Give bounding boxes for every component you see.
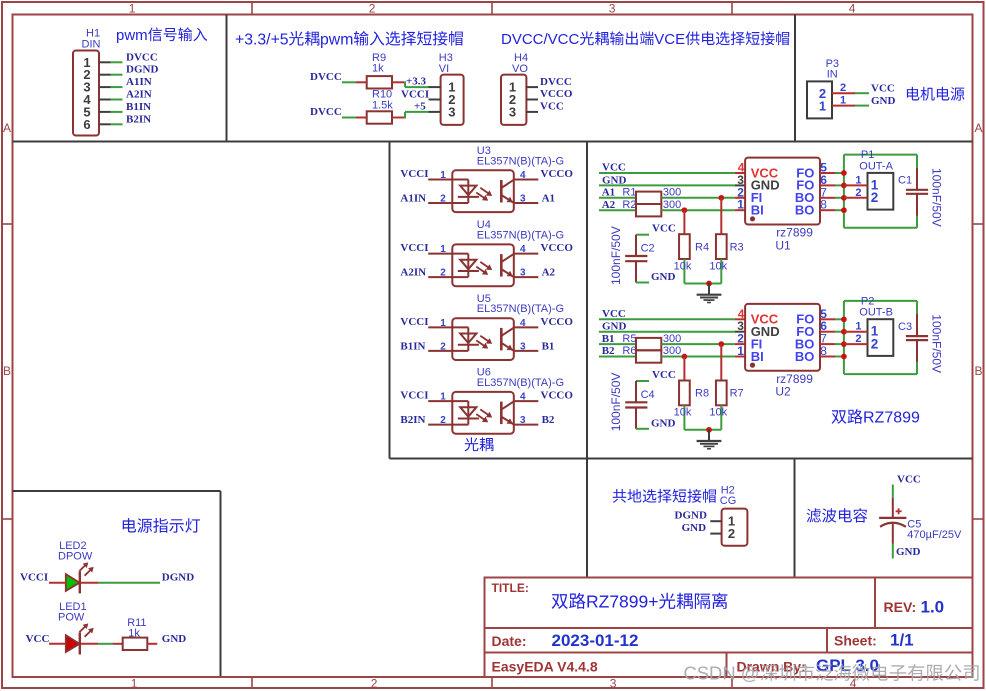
section title common ground select — [613, 489, 627, 503]
svg-text:GND: GND — [651, 417, 676, 429]
svg-text:A1: A1 — [602, 187, 615, 199]
svg-text:R2: R2 — [622, 199, 636, 211]
svg-text:A: A — [3, 121, 11, 135]
svg-text:VCC: VCC — [540, 101, 564, 113]
svg-text:2: 2 — [728, 526, 735, 541]
P3 pin 1 wire to GND — [832, 105, 855, 107]
junction FI pulldown — [718, 341, 724, 347]
svg-text:A1IN: A1IN — [126, 76, 152, 88]
wire R1 to U1 pin2 FI — [661, 197, 734, 199]
LED LED2 cathode bar — [79, 571, 81, 593]
svg-text:VCCI: VCCI — [400, 242, 428, 254]
svg-text:REV:: REV: — [884, 599, 917, 615]
svg-text:EL357N(B)(TA)-G: EL357N(B)(TA)-G — [477, 377, 564, 389]
svg-text:EL357N(B)(TA)-G: EL357N(B)(TA)-G — [477, 155, 564, 167]
U6 light arrows — [480, 409, 489, 415]
U1 pin1 marker — [750, 216, 755, 221]
capacitor C2 100nF/50V — [636, 234, 649, 236]
U3 pin 3 wire — [514, 202, 539, 204]
optocoupler U4 body — [452, 244, 514, 286]
wire GND to U1 pin3 — [599, 184, 735, 186]
capacitor C1 100nF/50V — [916, 168, 918, 190]
svg-text:VCCI: VCCI — [400, 316, 428, 328]
svg-text:B2IN: B2IN — [126, 113, 151, 125]
svg-text:DVCC: DVCC — [540, 76, 572, 88]
svg-text:B1IN: B1IN — [126, 101, 151, 113]
svg-text:GND: GND — [871, 95, 896, 107]
svg-text:BI: BI — [751, 349, 764, 364]
wire DVCC to R10 — [342, 117, 356, 119]
svg-text:GND: GND — [896, 546, 921, 558]
C5 plus sign — [896, 510, 902, 512]
resistor R5 300 — [636, 338, 661, 350]
resistor R3 10k (FI pulldown) — [720, 198, 722, 234]
junction FI pulldown — [718, 195, 724, 201]
svg-text:2023-01-12: 2023-01-12 — [552, 631, 639, 650]
wire bus bottom to C3 — [844, 373, 917, 375]
H4 pin 3 stub — [526, 111, 538, 113]
svg-text:BI: BI — [751, 203, 764, 218]
svg-text:B2: B2 — [542, 414, 555, 426]
LED LED2 arrows — [79, 564, 86, 571]
connector P1 body — [868, 173, 894, 210]
svg-text:100nF/50V: 100nF/50V — [609, 373, 623, 432]
svg-text:POW: POW — [58, 611, 85, 623]
wire B2 to R6 — [599, 356, 636, 358]
svg-text:2: 2 — [871, 336, 879, 351]
svg-text:10k: 10k — [709, 260, 727, 272]
wire bus bottom to C1 — [844, 227, 917, 229]
LED LED1 arrows — [79, 625, 86, 632]
H4 pin 2 stub — [526, 99, 538, 101]
divider common-ground / filter sections — [794, 459, 796, 578]
H1 pin 4 stub — [99, 99, 111, 101]
U4 pin 3 wire — [514, 276, 539, 278]
H1 pin 3 stub — [99, 86, 111, 88]
svg-text:10k: 10k — [674, 407, 692, 419]
H2 pin 2 stub — [710, 533, 721, 535]
svg-text:RZ7899: RZ7899 — [863, 410, 920, 427]
svg-text:R7: R7 — [730, 388, 744, 400]
U5 pin 2 wire — [428, 350, 452, 352]
svg-text:R3: R3 — [730, 241, 744, 253]
svg-text:VCC: VCC — [871, 83, 895, 95]
resistor R6 300 — [636, 350, 661, 362]
svg-text:VCC: VCC — [897, 474, 921, 486]
svg-text:EasyEDA V4.4.8: EasyEDA V4.4.8 — [492, 659, 598, 675]
svg-text:1/1: 1/1 — [890, 631, 914, 650]
U5 pin 1 wire — [428, 326, 452, 328]
svg-text:1: 1 — [855, 321, 861, 333]
svg-text:B: B — [975, 364, 983, 378]
H1 pin 2 stub — [99, 74, 111, 76]
ground symbol — [708, 284, 710, 295]
svg-text:DVCC: DVCC — [310, 71, 342, 83]
LED LED1 triangle — [66, 635, 80, 652]
svg-text:VCC: VCC — [652, 223, 676, 235]
svg-text:100nF/50V: 100nF/50V — [930, 314, 944, 373]
svg-text:VCCI: VCCI — [400, 168, 428, 180]
wire DVCC to R9 — [342, 81, 356, 83]
U6 phototransistor — [500, 402, 503, 425]
svg-text:2: 2 — [871, 190, 879, 205]
P2 pin 1 stub — [844, 331, 868, 333]
wire net DGND — [111, 74, 123, 76]
capacitor C4 100nF/50V — [636, 380, 649, 382]
section label dual RZ7899 — [832, 410, 847, 424]
partition line sec1-sec2 — [226, 15, 228, 142]
section title motor power — [907, 87, 920, 101]
column ticks top — [251, 2, 253, 15]
svg-text:2: 2 — [440, 194, 446, 205]
wire ground rail — [684, 429, 721, 431]
row ticks right — [973, 223, 984, 225]
U5 light arrows — [480, 336, 489, 342]
wire output bus vertical (P1) — [843, 155, 845, 228]
resistor R2 300 — [636, 204, 661, 216]
svg-text:VCE: VCE — [654, 31, 685, 48]
svg-text:IN: IN — [827, 69, 838, 81]
svg-text:1.0: 1.0 — [921, 598, 945, 617]
svg-text:B1: B1 — [602, 333, 615, 345]
wire net A1IN — [111, 86, 123, 88]
svg-text:R1: R1 — [622, 187, 636, 199]
svg-text:3: 3 — [509, 104, 516, 119]
svg-text:DVCC: DVCC — [310, 106, 342, 118]
wire VCC to C5 — [892, 485, 894, 498]
svg-text:RZ7899+: RZ7899+ — [586, 592, 658, 612]
svg-text:470µF/25V: 470µF/25V — [907, 529, 962, 541]
U4 light arrows — [480, 262, 489, 268]
svg-text:1: 1 — [737, 344, 744, 358]
ground symbol — [708, 430, 710, 441]
wire net B1IN — [111, 111, 123, 113]
svg-text:1: 1 — [737, 198, 744, 212]
svg-text:OUT-B: OUT-B — [859, 307, 893, 319]
svg-text:3: 3 — [610, 677, 617, 691]
capacitor C5 470uF/25V electrolytic — [879, 517, 906, 519]
svg-text:pwm: pwm — [116, 27, 148, 44]
svg-text:VCCI: VCCI — [400, 390, 428, 402]
wire B1 to R5 — [599, 343, 636, 345]
wire GND to U2 pin3 — [599, 331, 735, 333]
connector H2 CG — [722, 509, 748, 546]
wire R2 to U1 pin1 BI — [661, 209, 734, 211]
svg-text:100nF/50V: 100nF/50V — [609, 226, 623, 285]
P1 pin 1 stub — [844, 184, 868, 186]
svg-text:Sheet:: Sheet: — [834, 633, 877, 649]
svg-text:4: 4 — [849, 2, 856, 16]
wire R6 to U2 pin1 BI — [661, 356, 734, 358]
svg-text:BO: BO — [795, 349, 815, 364]
svg-text:1: 1 — [129, 2, 136, 16]
wire R11 to GND — [147, 643, 157, 645]
svg-text:VCC: VCC — [602, 308, 626, 320]
svg-text:DGND: DGND — [675, 510, 707, 522]
wire ground rail — [684, 283, 721, 285]
svg-text:VCC: VCC — [26, 633, 50, 645]
U5 phototransistor — [500, 328, 503, 351]
svg-text:VCCO: VCCO — [541, 242, 574, 254]
svg-text:A2: A2 — [602, 199, 616, 211]
resistor R11 1k — [123, 638, 148, 650]
U4 phototransistor — [500, 254, 503, 277]
svg-text:DIN: DIN — [82, 39, 101, 51]
svg-text:1: 1 — [855, 174, 861, 186]
power-indicator box top — [13, 490, 221, 492]
svg-text:VO: VO — [512, 63, 528, 75]
svg-text:300: 300 — [663, 199, 681, 211]
svg-text:A2IN: A2IN — [400, 267, 426, 279]
wire VCCI to LED2 — [49, 582, 66, 584]
capacitor C3 100nF/50V — [916, 314, 918, 336]
wire net A2IN — [111, 99, 123, 101]
svg-text:3: 3 — [520, 415, 526, 426]
svg-text:300: 300 — [663, 187, 681, 199]
wire A2 to R2 — [599, 209, 636, 211]
svg-text:3: 3 — [520, 194, 526, 205]
IC U2 rz7899 body — [745, 304, 820, 371]
P1 pin 2 stub — [844, 197, 868, 199]
svg-text:B1: B1 — [542, 340, 555, 352]
svg-text:1k: 1k — [372, 63, 384, 75]
svg-text:B2: B2 — [602, 345, 615, 357]
svg-text:GND: GND — [162, 633, 187, 645]
svg-text:BO: BO — [795, 203, 815, 218]
optocoupler U3 body — [452, 170, 514, 212]
U5 pin 3 wire — [514, 350, 539, 352]
svg-text:300: 300 — [663, 345, 681, 357]
svg-text:DGND: DGND — [162, 572, 194, 584]
svg-text:A2IN: A2IN — [126, 89, 152, 101]
connector P3 IN — [807, 81, 832, 118]
wire R10 to H3 pin3 — [392, 117, 405, 119]
P3 pin 2 wire to VCC — [832, 92, 855, 94]
junctions output bus — [841, 170, 847, 176]
title block frame — [485, 578, 973, 678]
svg-text:OUT-A: OUT-A — [859, 160, 893, 172]
section title power indicator — [123, 518, 136, 532]
H1 pin 1 stub — [99, 61, 111, 63]
svg-text:VCCI: VCCI — [401, 89, 429, 101]
U6 pin 1 wire — [428, 400, 452, 402]
wire LED2 to DGND — [81, 582, 98, 584]
U4 pin 4 wire — [514, 253, 539, 255]
wire VCC to LED1 — [49, 643, 66, 645]
LED LED2 triangle — [66, 574, 80, 591]
U6 pin 2 wire — [428, 424, 452, 426]
row ticks left — [2, 223, 13, 225]
junctions output bus — [841, 316, 847, 322]
svg-text:R4: R4 — [695, 241, 709, 253]
connector H1 DIN — [73, 51, 99, 136]
svg-text:TITLE:: TITLE: — [492, 581, 529, 595]
connector P2 body — [868, 319, 894, 356]
svg-text:VCCO: VCCO — [540, 88, 573, 100]
section title filter capacitor — [807, 508, 821, 522]
svg-text:CG: CG — [720, 495, 737, 507]
svg-text:1: 1 — [819, 98, 826, 113]
svg-text:2: 2 — [440, 415, 446, 426]
wire bus top to C1 — [844, 154, 917, 156]
U3 pin 2 wire — [428, 202, 452, 204]
svg-text:1.5k: 1.5k — [372, 99, 393, 111]
U1 output stubs — [820, 172, 835, 174]
section label opto couplers — [465, 437, 479, 451]
svg-text:+5: +5 — [414, 100, 426, 112]
svg-text:3: 3 — [448, 104, 455, 119]
H2 pin 1 stub — [710, 520, 721, 522]
resistor R10 1.5k — [367, 111, 392, 123]
partition line horizontal main — [13, 141, 973, 143]
svg-text:CSDN @: CSDN @ — [684, 663, 760, 684]
svg-text:U1: U1 — [775, 238, 791, 252]
svg-text:3: 3 — [609, 2, 616, 16]
svg-text:100nF/50V: 100nF/50V — [930, 168, 944, 227]
svg-text:VCCO: VCCO — [541, 168, 574, 180]
svg-text:1: 1 — [840, 94, 846, 106]
svg-text:3: 3 — [520, 341, 526, 352]
svg-text:U2: U2 — [775, 385, 791, 399]
connector H3 VI — [441, 75, 464, 125]
svg-text:R6: R6 — [622, 345, 636, 357]
H1 pin 6 stub — [99, 123, 111, 125]
wire A1 to R1 — [599, 197, 636, 199]
U2 output stubs — [820, 318, 835, 320]
svg-text:VCC: VCC — [602, 162, 626, 174]
resistor R1 300 — [636, 192, 661, 204]
svg-text:1: 1 — [440, 318, 446, 329]
wire VCC to U2 pin4 — [599, 318, 735, 320]
svg-text:2: 2 — [440, 268, 446, 279]
wire LED1 to R11 — [81, 643, 98, 645]
svg-text:DVCC/VCC: DVCC/VCC — [501, 31, 580, 48]
U3 pin 1 wire — [428, 179, 452, 181]
wire R9 to H3 pin1 — [392, 81, 404, 83]
svg-text:+3.3/+5: +3.3/+5 — [235, 31, 289, 48]
resistor R9 1k — [367, 76, 392, 88]
power-indicator box right — [220, 491, 222, 676]
U4 pin 1 wire — [428, 253, 452, 255]
wire net B2IN — [111, 123, 123, 125]
svg-text:2: 2 — [369, 2, 376, 16]
resistor R4 10k (BI pulldown) — [683, 210, 685, 234]
H3 pin 3 stub — [429, 111, 441, 113]
svg-text:R8: R8 — [695, 388, 709, 400]
svg-text:DVCC: DVCC — [126, 51, 158, 63]
svg-text:2: 2 — [840, 82, 846, 94]
svg-text:VCCO: VCCO — [541, 316, 574, 328]
H4 pin 1 stub — [526, 86, 538, 88]
junction BI pulldown — [682, 207, 688, 213]
svg-text:GND: GND — [651, 271, 676, 283]
svg-text:VCC: VCC — [652, 369, 676, 381]
resistor R8 10k (BI pulldown) — [683, 357, 685, 381]
H3 pin 1 stub — [429, 86, 441, 88]
svg-text:VCCI: VCCI — [20, 572, 48, 584]
LED LED1 cathode bar — [79, 632, 81, 654]
middle vertical divider — [586, 142, 588, 578]
svg-text:EL357N(B)(TA)-G: EL357N(B)(TA)-G — [477, 229, 564, 241]
U3 pin 4 wire — [514, 179, 539, 181]
U6 pin 3 wire — [514, 424, 539, 426]
svg-text:GPL 3.0: GPL 3.0 — [816, 656, 879, 675]
wire bus top to C3 — [844, 300, 917, 302]
U3 internal LED — [452, 179, 468, 181]
svg-text:B2IN: B2IN — [400, 414, 425, 426]
P2 pin 2 stub — [844, 343, 868, 345]
svg-text:DGND: DGND — [126, 64, 158, 76]
svg-text:A: A — [975, 121, 983, 135]
resistor R7 10k (FI pulldown) — [720, 344, 722, 380]
svg-text:1: 1 — [440, 170, 446, 181]
svg-text:4: 4 — [520, 170, 526, 181]
IC U1 rz7899 body — [745, 158, 820, 225]
partition line sec3-sec4 — [794, 15, 796, 142]
svg-text:2: 2 — [440, 341, 446, 352]
svg-text:EL357N(B)(TA)-G: EL357N(B)(TA)-G — [477, 303, 564, 315]
svg-text:3: 3 — [520, 268, 526, 279]
svg-text:GND: GND — [682, 522, 707, 534]
H1 pin 5 stub — [99, 111, 111, 113]
connector H4 VO — [501, 75, 526, 125]
svg-text:300: 300 — [663, 333, 681, 345]
svg-text:C2: C2 — [641, 243, 655, 255]
svg-text:2: 2 — [855, 333, 861, 345]
svg-text:C3: C3 — [898, 321, 912, 333]
svg-text:2: 2 — [855, 187, 861, 199]
U5 internal LED — [452, 326, 468, 328]
H3 pin 2 stub — [429, 99, 441, 101]
svg-text:Date:: Date: — [492, 633, 527, 649]
svg-text:10k: 10k — [709, 407, 727, 419]
svg-text:10k: 10k — [674, 260, 692, 272]
svg-text:6: 6 — [83, 117, 90, 132]
svg-text:+3.3: +3.3 — [406, 76, 427, 88]
U4 pin 2 wire — [428, 276, 452, 278]
column ticks bottom — [251, 677, 253, 688]
junction ground rail — [706, 427, 712, 433]
svg-text:A2: A2 — [542, 267, 556, 279]
optocoupler U6 body — [452, 392, 514, 434]
svg-text:1: 1 — [440, 392, 446, 403]
wire R5 to U2 pin2 FI — [661, 343, 734, 345]
svg-text:R5: R5 — [622, 333, 636, 345]
svg-text:VI: VI — [439, 63, 449, 75]
junction BI pulldown — [682, 354, 688, 360]
U3 light arrows — [480, 188, 489, 194]
svg-text:B: B — [3, 364, 11, 378]
svg-text:A1IN: A1IN — [400, 193, 426, 205]
junction ground rail — [706, 281, 712, 287]
opto box left edge — [389, 142, 391, 459]
title text — [552, 594, 568, 609]
partition line horizontal lower — [390, 458, 973, 460]
svg-text:B1IN: B1IN — [400, 340, 425, 352]
svg-text:1: 1 — [131, 677, 138, 691]
U4 internal LED — [452, 253, 468, 255]
svg-text:C4: C4 — [641, 389, 655, 401]
svg-text:2: 2 — [371, 677, 378, 691]
svg-text:1: 1 — [440, 244, 446, 255]
svg-text:4: 4 — [520, 244, 526, 255]
wire output bus vertical (P2) — [843, 301, 845, 374]
U6 pin 4 wire — [514, 400, 539, 402]
wire VCC to U1 pin4 — [599, 172, 735, 174]
svg-text:DPOW: DPOW — [58, 550, 93, 562]
svg-text:4: 4 — [520, 318, 526, 329]
svg-text:A1: A1 — [542, 193, 555, 205]
